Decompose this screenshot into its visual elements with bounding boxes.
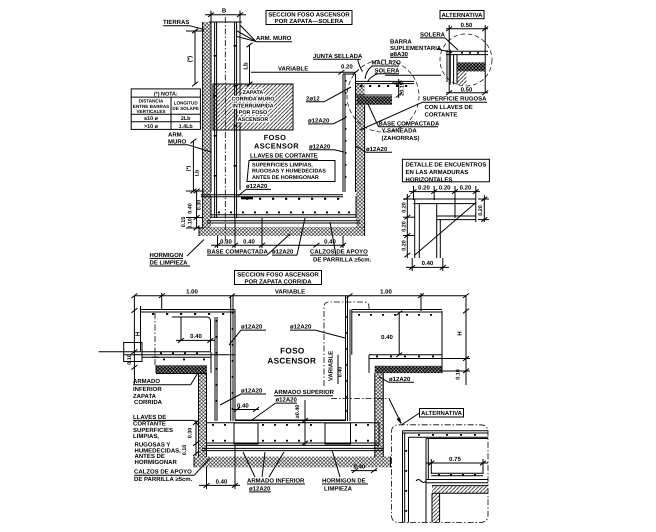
section marker square: [124, 343, 142, 362]
vertical bar pair 2: [436, 204, 438, 258]
svg-text:1.00: 1.00: [380, 288, 392, 295]
zapata block text: [232, 90, 275, 123]
svg-text:>10 ø: >10 ø: [144, 124, 159, 130]
slab top lines: [403, 430, 489, 432]
svg-text:(*): (*): [187, 56, 194, 62]
svg-text:0.20: 0.20: [341, 64, 353, 71]
svg-text:ALTERNATIVA: ALTERNATIVA: [442, 12, 484, 19]
svg-text:Y SANEADA: Y SANEADA: [382, 128, 418, 135]
right zapata dark strip: [375, 366, 442, 373]
solera slab lines (alternativa): [446, 50, 488, 52]
svg-text:VARIABLE: VARIABLE: [328, 351, 335, 381]
svg-text:INFERIOR: INFERIOR: [133, 386, 162, 393]
svg-text:LIMPIEZA: LIMPIEZA: [324, 485, 353, 492]
svg-text:2ø12: 2ø12: [306, 95, 320, 102]
svg-text:ø12A20: ø12A20: [389, 376, 411, 383]
left dimension 0.20 x3: [406, 194, 408, 258]
svg-text:EN LAS ARMADURAS: EN LAS ARMADURAS: [406, 169, 469, 176]
svg-text:LONGITUD: LONGITUD: [174, 101, 199, 106]
wall left (vertical): [210, 22, 212, 192]
svg-text:ARMADO INFERIOR: ARMADO INFERIOR: [247, 478, 305, 485]
horizontal bar pair 2: [437, 215, 476, 217]
inner wall verticals: [425, 439, 427, 523]
svg-text:0.40: 0.40: [243, 238, 255, 245]
svg-text:0.15: 0.15: [181, 217, 187, 228]
svg-text:CORTANTE: CORTANTE: [425, 112, 458, 119]
svg-text:0.20: 0.20: [418, 184, 430, 191]
svg-text:SUPLEMENTARIA: SUPLEMENTARIA: [390, 45, 442, 52]
svg-text:0.10: 0.10: [182, 445, 188, 456]
svg-text:SECCION FOSO ASCENSOR: SECCION FOSO ASCENSOR: [237, 272, 319, 279]
svg-text:HORIZONTALES: HORIZONTALES: [406, 176, 453, 183]
svg-text:0.20: 0.20: [460, 184, 472, 191]
left H dimension: [133, 296, 135, 384]
right wall of pit (under junta): [342, 74, 344, 192]
slab white dim boxes: [234, 423, 258, 444]
svg-text:SUPERFICIES: SUPERFICIES: [133, 427, 173, 434]
svg-text:SECCION FOSO ASCENSOR: SECCION FOSO ASCENSOR: [268, 12, 350, 19]
svg-text:≥0.15: ≥0.15: [399, 82, 405, 95]
svg-text:Lb: Lb: [195, 169, 201, 176]
svg-text:ARM.: ARM.: [168, 132, 184, 139]
svg-text:0.40: 0.40: [381, 334, 393, 341]
svg-text:0.20: 0.20: [439, 184, 451, 191]
svg-text:DE SOLAPE: DE SOLAPE: [172, 106, 199, 111]
svg-text:B: B: [222, 8, 227, 15]
svg-text:VARIABLE: VARIABLE: [278, 65, 308, 72]
vertical bar pair 1: [414, 199, 416, 258]
svg-text:≥0.40: ≥0.40: [295, 405, 301, 418]
svg-text:ø12A20: ø12A20: [290, 324, 312, 331]
svg-text:RUGOSAS Y: RUGOSAS Y: [135, 442, 171, 449]
dimension (*) lower left: [192, 141, 194, 191]
dash-dot centerline left: [154, 313, 156, 366]
svg-text:DE PARRILLA ≥5cm.: DE PARRILLA ≥5cm.: [313, 256, 372, 263]
svg-text:ARMADO: ARMADO: [133, 378, 160, 385]
svg-text:SUPERFICIE RUGOSA: SUPERFICIE RUGOSA: [423, 96, 488, 103]
svg-text:CORTANTE: CORTANTE: [133, 421, 166, 428]
svg-text:INTERRUMPIDA: INTERRUMPIDA: [232, 103, 273, 109]
left upper ground line: [141, 309, 235, 311]
detail circle (alternativa): [440, 34, 492, 86]
solera (floor slab right of wall): [356, 80, 415, 82]
dash-dot leader to alternativa: [331, 398, 389, 400]
svg-text:SUPERFICIES LIMPIAS,: SUPERFICIES LIMPIAS,: [252, 162, 313, 168]
dark strip (alternativa): [457, 62, 485, 71]
svg-text:0.30: 0.30: [220, 238, 232, 245]
svg-text:1.4Lb: 1.4Lb: [179, 124, 194, 130]
svg-text:1.00: 1.00: [186, 288, 198, 295]
svg-text:POR ZAPATA CORRIDA: POR ZAPATA CORRIDA: [244, 278, 312, 285]
svg-text:ANTES DE HORMIGONAR: ANTES DE HORMIGONAR: [252, 175, 319, 181]
bottom dimension line 0.30 / 0.40: [211, 244, 345, 246]
svg-text:≤10 ø: ≤10 ø: [144, 116, 158, 122]
left soil hatch column: [199, 373, 207, 457]
svg-text:ø12A20: ø12A20: [241, 324, 263, 331]
pit floor slab: [201, 194, 343, 196]
svg-text:ZAPATA: ZAPATA: [133, 393, 157, 400]
svg-text:(*) NOTA:: (*) NOTA:: [154, 91, 178, 97]
title box seccion foso ascensor por zapata corrida: [235, 271, 322, 285]
slab rebar ticks: [218, 198, 350, 214]
center vertical dimension >=0.40: [304, 400, 306, 445]
horizontal bar pair 1: [414, 198, 476, 200]
svg-text:DETALLE DE ENCUENTROS: DETALLE DE ENCUENTROS: [406, 162, 487, 169]
svg-text:0.20: 0.20: [478, 205, 484, 216]
title box ALTERNATIVA (bottom right): [420, 409, 464, 418]
break squiggle: [416, 480, 426, 483]
svg-text:LIMPIAS,: LIMPIAS,: [133, 433, 159, 440]
svg-text:0.30: 0.30: [196, 200, 202, 211]
title box seccion foso ascensor por zapata-solera: [266, 11, 352, 25]
svg-text:0.40: 0.40: [324, 238, 336, 245]
soil hatch column left of wall: [203, 22, 211, 228]
zapata corrida hatched block: [213, 84, 293, 130]
svg-text:SOLERA: SOLERA: [420, 31, 446, 38]
bottom soil hatch strip: [194, 457, 391, 468]
right soil hatch column: [375, 366, 384, 457]
svg-text:ø12A20: ø12A20: [309, 143, 331, 150]
svg-text:CORRIDA MURO: CORRIDA MURO: [232, 97, 275, 103]
dimension 0.40 (right, above hatch): [351, 461, 378, 470]
svg-text:BASE COMPACTADA: BASE COMPACTADA: [207, 249, 268, 256]
svg-text:DE PARRILLA ≥5cm.: DE PARRILLA ≥5cm.: [134, 476, 193, 483]
svg-text:ø12A20: ø12A20: [272, 249, 294, 256]
haunch / recess line left: [172, 317, 211, 352]
note box superficies limpias: [247, 161, 335, 182]
svg-text:ARM. MURO: ARM. MURO: [256, 35, 292, 42]
left wall verticals (alternativa): [402, 431, 404, 523]
svg-text:ø12A20: ø12A20: [308, 117, 330, 124]
dimension >=0.15: [398, 79, 400, 98]
svg-text:LLAVES DE CORTANTE: LLAVES DE CORTANTE: [250, 153, 318, 160]
svg-text:ø12A20: ø12A20: [241, 388, 263, 395]
svg-text:RUGOSAS Y HUMEDECIDAS: RUGOSAS Y HUMEDECIDAS: [252, 169, 326, 175]
left wall verticals: [210, 352, 212, 373]
svg-text:ø12A20: ø12A20: [276, 397, 298, 404]
svg-text:0.40: 0.40: [422, 260, 434, 267]
armado horizontal lines: [431, 472, 483, 474]
svg-text:VERTICALES: VERTICALES: [136, 109, 165, 114]
title box detalle de encuentros: [402, 159, 489, 182]
right dimension 0.20: [483, 195, 485, 222]
svg-text:0.40: 0.40: [190, 333, 202, 340]
svg-text:0.20: 0.20: [402, 240, 408, 251]
hatch column going down: [432, 493, 440, 522]
wall rebar ticks: [214, 45, 237, 177]
soil hatch below (alternativa): [457, 71, 466, 84]
svg-text:0.30: 0.30: [188, 428, 194, 439]
detail circle around junta: [347, 60, 419, 132]
dash-dot rounded boundary: [392, 425, 489, 523]
right upper ground line: [352, 309, 442, 311]
wall face lines (alternativa): [446, 50, 448, 82]
svg-text:ASCENSOR: ASCENSOR: [238, 117, 269, 123]
svg-text:ø12A20: ø12A20: [249, 485, 271, 492]
left zapata dark strip: [156, 365, 207, 373]
svg-text:FOSO: FOSO: [280, 346, 305, 355]
title box ALTERNATIVA (top right): [440, 11, 484, 19]
note table (*) NOTA: [131, 89, 200, 130]
right wall verticals: [345, 296, 347, 421]
pit floor slab (bottom drawing): [235, 419, 346, 421]
svg-text:0.75: 0.75: [449, 456, 461, 463]
dash-dot hood over right wall: [324, 302, 369, 386]
dimension (*) upper left: [194, 31, 196, 84]
svg-text:ARMADO SUPERIOR: ARMADO SUPERIOR: [274, 389, 335, 396]
dimension 0.30 / 0.10 (left of pit slab): [195, 420, 197, 456]
left footing slab: [124, 354, 235, 356]
svg-text:H: H: [135, 332, 142, 336]
svg-text:TIERRAS: TIERRAS: [163, 19, 189, 26]
right H dimension: [465, 296, 467, 385]
svg-text:0.10: 0.10: [127, 354, 133, 365]
svg-text:ZAPATA: ZAPATA: [243, 90, 264, 96]
svg-text:ø12A20: ø12A20: [246, 183, 268, 190]
svg-text:ASCENSOR: ASCENSOR: [267, 356, 316, 365]
svg-text:POR ZAPATA—SOLERA: POR ZAPATA—SOLERA: [275, 18, 344, 25]
slab rebar ticks: [212, 424, 369, 442]
svg-text:BARRA: BARRA: [390, 39, 412, 46]
wall centerline: [224, 17, 226, 242]
svg-text:CALZOS DE APOYO: CALZOS DE APOYO: [310, 249, 368, 256]
svg-text:HORMIGONAR: HORMIGONAR: [135, 459, 178, 466]
svg-text:LLAVES DE: LLAVES DE: [133, 414, 166, 421]
svg-text:H: H: [457, 331, 464, 335]
dimension Lb (right of wall): [249, 45, 251, 84]
svg-text:CALZOS DE APOYO: CALZOS DE APOYO: [134, 469, 192, 476]
soil hatch column right of wall: [356, 84, 365, 228]
svg-text:(ZAHORRAS): (ZAHORRAS): [382, 135, 420, 142]
svg-text:ø12A20: ø12A20: [366, 146, 388, 153]
right footing slab: [369, 354, 442, 356]
svg-text:CORRIDA: CORRIDA: [134, 399, 163, 406]
base compactada dark strip under solera: [357, 96, 393, 105]
svg-text:POR FOSO: POR FOSO: [239, 110, 267, 116]
diagonal bar: [415, 203, 476, 256]
soil hatch strip under slab: [199, 227, 365, 236]
svg-text:CON LLAVES DE: CON LLAVES DE: [425, 104, 473, 111]
svg-text:BASE COMPACTADA: BASE COMPACTADA: [379, 120, 440, 127]
svg-text:VARIABLE: VARIABLE: [275, 288, 305, 295]
svg-text:0.20: 0.20: [402, 221, 408, 232]
svg-text:0.50: 0.50: [461, 22, 473, 29]
dimension B (wall width, top): [205, 14, 246, 16]
svg-text:Lb: Lb: [243, 62, 250, 70]
svg-text:HORMIGON DE: HORMIGON DE: [322, 478, 366, 485]
svg-text:2Lb: 2Lb: [181, 116, 191, 122]
svg-text:JUNTA SELLADA: JUNTA SELLADA: [313, 53, 363, 60]
svg-text:0.20: 0.20: [402, 202, 408, 213]
svg-text:ASCENSOR: ASCENSOR: [254, 141, 299, 150]
junta top line to alternativa: [385, 74, 441, 76]
svg-text:ALTERNATIVA: ALTERNATIVA: [421, 410, 463, 417]
svg-text:0.40: 0.40: [188, 203, 194, 214]
top dimension line 1.00 / VARIABLE / 1.00: [134, 295, 466, 297]
svg-text:(*): (*): [186, 165, 192, 171]
svg-text:0.40: 0.40: [216, 478, 228, 485]
svg-text:0.10: 0.10: [188, 218, 194, 229]
hatch strip (alternativa BR): [432, 486, 488, 494]
